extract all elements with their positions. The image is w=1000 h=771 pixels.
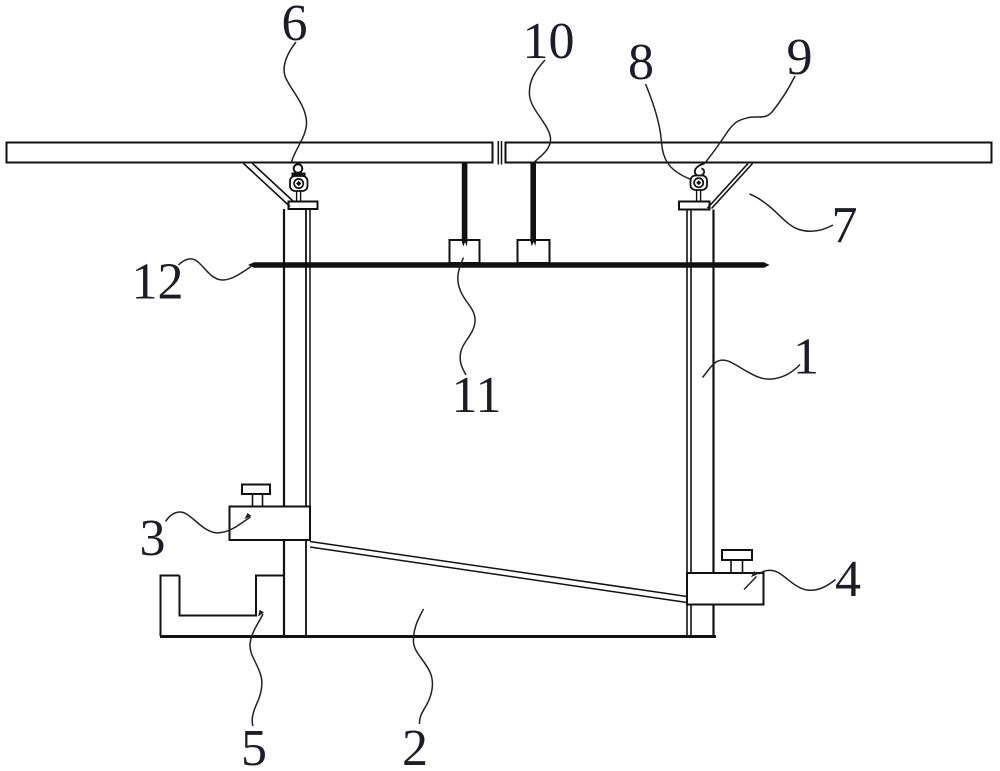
leader line 11 (458, 258, 475, 376)
svg-text:6: 6 (282, 0, 308, 52)
clamp 4 T-screw stem (731, 560, 743, 573)
svg-text:2: 2 (402, 720, 428, 771)
panel right (ceiling slab) (506, 143, 992, 163)
leader arrow 3 (245, 513, 252, 519)
right hanger hook (695, 164, 705, 176)
svg-text:9: 9 (787, 29, 813, 86)
clamp 4 T-screw cap (722, 550, 752, 560)
left hanger ball (294, 164, 303, 173)
leader line 1 (703, 360, 801, 379)
hanging rod 10 left (thick) (462, 163, 468, 247)
clamp 3 block (230, 507, 311, 541)
leader arrow tail 4 (744, 577, 757, 590)
leader line 6 (284, 42, 306, 162)
svg-text:12: 12 (132, 254, 184, 311)
left hanger nut (290, 176, 308, 191)
svg-text:4: 4 (835, 551, 861, 608)
leader line 3 (166, 512, 251, 533)
left cap plate (289, 202, 318, 210)
leader line 5 (250, 614, 263, 726)
diagonal tie rod between clamps (310, 542, 687, 603)
svg-text:5: 5 (241, 720, 267, 771)
leader line 8 (646, 84, 691, 179)
right column 1 (vertical post lines) (687, 210, 714, 636)
svg-text:1: 1 (793, 329, 819, 386)
hook bracket 5 (U channel at lower left) (161, 576, 285, 637)
svg-text:3: 3 (140, 510, 166, 567)
hanger block 11 left (450, 240, 480, 263)
break mark between panels (498, 141, 501, 165)
svg-text:11: 11 (451, 367, 501, 424)
left hanger collar (292, 173, 306, 178)
right hanger stem (697, 190, 701, 202)
base line of box 2 (160, 635, 716, 638)
leader line 4 (759, 570, 836, 590)
clamp 3 T-screw cap (242, 485, 270, 495)
left diagonal brace (244, 164, 294, 207)
svg-text:7: 7 (832, 197, 858, 254)
left column 1 (vertical post lines) (284, 209, 310, 636)
leader line 7 (750, 194, 834, 231)
svg-text:8: 8 (628, 34, 654, 91)
leader line 12 (179, 259, 252, 280)
leader line 10 (529, 60, 550, 163)
right hanger nut (691, 176, 708, 191)
hanging rod 10 right (thick) (530, 163, 536, 247)
right diagonal brace (708, 164, 753, 209)
leader arrow 4 (751, 571, 758, 577)
svg-text:10: 10 (523, 13, 575, 70)
left hanger stem (297, 191, 301, 202)
right cap plate (679, 202, 710, 210)
rod 12 (thick horizontal bar) (248, 262, 770, 268)
leader line 9 (705, 76, 796, 164)
leader line 2 (413, 609, 432, 724)
hanger block 11 right (518, 240, 550, 263)
clamp 3 T-screw stem (253, 494, 263, 507)
panel left (ceiling slab) (7, 143, 493, 163)
clamp 4 block (687, 573, 764, 605)
